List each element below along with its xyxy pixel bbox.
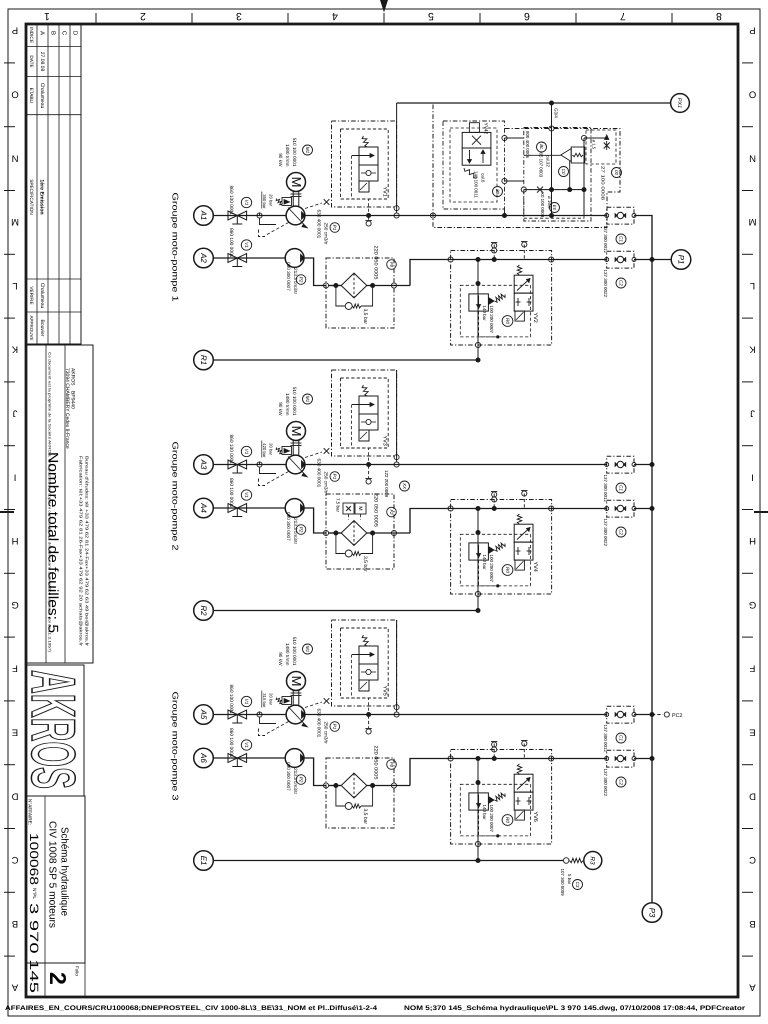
svg-text:00: 00 <box>614 170 619 176</box>
svg-text:1ère Emission: 1ère Emission <box>39 179 45 214</box>
svg-text:20 bar: 20 bar <box>269 194 274 206</box>
ref label V1 on A1 line <box>241 197 251 207</box>
filter inlet crossing <box>323 530 328 535</box>
svg-text:1: 1 <box>44 10 50 22</box>
junction bypass left <box>333 783 338 788</box>
wire YV5 to pressure line <box>396 620 398 712</box>
svg-text:R1: R1 <box>199 355 208 365</box>
wire YV1 box to PX1 line <box>396 103 398 121</box>
wire R2 return line <box>213 610 478 612</box>
wire pump P2 to filter group 1 <box>304 258 326 286</box>
wire pump P1 pressure line group 3 <box>305 714 607 716</box>
filter inlet crossing <box>323 283 328 288</box>
svg-text:2: 2 <box>45 972 71 985</box>
bypass check valve 3.5 bar <box>336 533 345 554</box>
centering mark right <box>754 511 768 513</box>
svg-text:C2: C2 <box>618 779 623 785</box>
coupling C1 quick-disconnect <box>607 207 634 224</box>
svg-text:137 300 0022: 137 300 0022 <box>603 519 608 547</box>
test point 2 above block <box>523 741 525 758</box>
svg-text:V1: V1 <box>244 449 249 455</box>
ref label 00 <box>612 168 622 178</box>
solenoid valve YV4 <box>517 514 521 524</box>
solenoid valve YV2 <box>517 265 521 275</box>
wire E1 extension <box>478 860 564 862</box>
filter outlet crossing <box>391 783 396 788</box>
wire C2 to port P1 <box>634 259 671 261</box>
svg-text:Bureau d'études: tél +33 479: Bureau d'études: tél +33 479 62 81 24-Fa… <box>85 456 90 647</box>
svg-text:860 100 0001: 860 100 0001 <box>228 186 234 216</box>
electric motor M1 group 2 <box>287 422 306 441</box>
svg-text:L: L <box>12 280 17 291</box>
spring of YV42 <box>464 168 477 178</box>
motor-pump shaft coupling <box>292 691 294 706</box>
gear pump P2 group 1 <box>285 249 304 268</box>
orifice X0 16mm <box>537 187 543 193</box>
svg-text:3: 3 <box>236 10 242 22</box>
hand shut-off valve V1 on A2 line <box>228 254 237 263</box>
svg-text:B: B <box>12 918 18 929</box>
cartridge valve (logic element) <box>561 149 571 162</box>
svg-text:X0 100 0009: X0 100 0009 <box>540 192 545 218</box>
svg-text:AKROS: AKROS <box>18 670 87 789</box>
svg-text:860 100 0001: 860 100 0001 <box>228 728 234 758</box>
motor-pump shaft coupling <box>292 441 294 456</box>
svg-text:INDICE: INDICE <box>29 27 34 43</box>
junction bypass left <box>333 531 338 536</box>
svg-text:8: 8 <box>716 10 722 22</box>
ref label P2 group 1 <box>296 275 306 285</box>
wire pump P1 pressure line group 1 <box>305 215 584 217</box>
wire E0 line <box>524 189 584 191</box>
company info box <box>26 345 93 663</box>
wire E1 return line <box>213 860 478 862</box>
svg-text:CIV 1008 SP 5 moteurs: CIV 1008 SP 5 moteurs <box>47 821 58 928</box>
wire YV1 to pressure line <box>396 121 398 213</box>
pilot line of YV3 <box>352 405 369 465</box>
svg-text:860 100 0001: 860 100 0001 <box>228 478 234 508</box>
svg-text:P3: P3 <box>647 908 656 918</box>
reducing/solenoid valve YV6 enclosure <box>451 750 552 845</box>
wire YV42 block to pressure line <box>504 209 506 216</box>
svg-text:I: I <box>751 471 754 482</box>
svg-text:137 300 0012: 137 300 0012 <box>603 725 608 753</box>
motor-pump shaft coupling <box>292 192 294 207</box>
ref label F0 group 1 <box>387 260 397 270</box>
svg-text:080 300 0007: 080 300 0007 <box>286 512 291 541</box>
ref label C2 <box>616 527 626 537</box>
ref label P1 group 2 <box>330 472 340 482</box>
svg-text:P1: P1 <box>332 225 337 231</box>
svg-text:N: N <box>11 152 18 163</box>
wire cartridge to orifice <box>584 137 607 139</box>
junction bypass right <box>370 783 375 788</box>
ref label M1 group 1 <box>303 145 313 155</box>
drain plug X of pump <box>305 203 322 209</box>
svg-text:V1: V1 <box>244 492 249 498</box>
svg-text:APPROUVE: APPROUVE <box>29 315 34 340</box>
svg-text:PC2: PC2 <box>672 713 683 719</box>
wire A4 port to pump <box>213 507 285 509</box>
svg-text:A6: A6 <box>199 752 208 763</box>
svg-text:A4: A4 <box>199 502 208 513</box>
port A1 <box>194 206 214 226</box>
svg-text:E0: E0 <box>552 205 557 211</box>
port A4 <box>194 498 214 518</box>
svg-text:213.3 cm3/tr: 213.3 cm3/tr <box>293 768 298 794</box>
svg-text:90 kW: 90 kW <box>278 402 283 416</box>
wire drain stub at suction node <box>260 717 277 723</box>
wire YV2 block drain to return <box>477 345 479 360</box>
svg-text:137 300 0012: 137 300 0012 <box>603 475 608 503</box>
coupling C2 quick-disconnect <box>607 750 634 767</box>
coupling C2 quick-disconnect <box>607 251 634 268</box>
coupling C2 quick-disconnect <box>607 500 634 517</box>
ref label XX <box>400 481 410 491</box>
wire C1 to collector g3 <box>634 714 652 716</box>
svg-text:M1: M1 <box>305 646 310 653</box>
hand shut-off valve V1 on A4 line <box>228 504 237 513</box>
svg-text:A3: A3 <box>199 459 208 470</box>
cartridge block enclosure <box>524 128 591 222</box>
wire filter outlet riser group 3 <box>410 759 607 786</box>
svg-text:2: 2 <box>140 10 146 22</box>
svg-text:C3: C3 <box>575 882 580 888</box>
svg-text:SPECIFICATION: SPECIFICATION <box>29 179 34 215</box>
svg-text:F: F <box>749 663 755 674</box>
svg-text:137 300 0022: 137 300 0022 <box>603 270 608 298</box>
inner dashed box of YV6 <box>460 784 530 836</box>
node check to R3 <box>563 858 569 864</box>
left edge zone ticks <box>4 62 15 64</box>
wire YV3 to pressure line <box>396 370 398 462</box>
ref label C1 <box>616 234 626 244</box>
pilot line of YV5 <box>352 655 369 715</box>
svg-text:D: D <box>72 31 79 36</box>
filter F0 group 2 <box>341 521 367 546</box>
svg-text:860 100 0001: 860 100 0001 <box>228 435 234 465</box>
solenoid valve YV42 body <box>469 123 479 133</box>
svg-text:420 bar: 420 bar <box>262 443 267 458</box>
svg-text:510 100 0001: 510 100 0001 <box>292 387 297 416</box>
solenoid pilot valve YV1 enclosure <box>332 121 397 207</box>
electric motor M1 group 1 <box>287 173 306 192</box>
junction bypass left <box>333 283 338 288</box>
svg-text:YV5: YV5 <box>382 686 388 696</box>
svg-text:P2: P2 <box>298 527 303 533</box>
svg-text:3,5 bar: 3,5 bar <box>362 309 368 325</box>
svg-text:K: K <box>11 344 18 355</box>
svg-text:1480 tr/mn: 1480 tr/mn <box>285 393 290 416</box>
filter enclosure group 2 <box>326 494 394 569</box>
svg-text:350 bar: 350 bar <box>262 194 267 209</box>
svg-text:140 bar: 140 bar <box>482 805 487 821</box>
svg-text:250 cm3/tr: 250 cm3/tr <box>324 722 329 745</box>
wire main collector to port P3 <box>651 260 653 903</box>
svg-text:V1: V1 <box>244 200 249 206</box>
svg-text:F0: F0 <box>389 262 394 268</box>
wire YV42 to cartridge block lower <box>505 180 524 182</box>
svg-text:cal.32: cal.32 <box>546 155 551 167</box>
port R1 <box>194 350 214 370</box>
svg-text:YV2: YV2 <box>532 313 538 323</box>
svg-text:M: M <box>289 676 304 687</box>
test point 1 above block <box>493 492 495 508</box>
wire drain stub at suction node <box>260 467 277 473</box>
filter outlet crossing <box>391 530 396 535</box>
svg-text:860 100 0001: 860 100 0001 <box>228 685 234 715</box>
filter enclosure group 1 <box>326 258 394 328</box>
svg-text:G: G <box>11 599 18 610</box>
svg-text:D: D <box>11 790 18 801</box>
solenoid valve YV6 <box>517 764 521 774</box>
crossing at manifold box edge <box>430 213 435 218</box>
wire vertical feed inside YV4 block <box>477 509 479 595</box>
svg-text:510 100 0001: 510 100 0001 <box>292 637 297 666</box>
svg-text:A: A <box>39 31 46 35</box>
svg-text:213.3 cm3/tr: 213.3 cm3/tr <box>293 268 298 294</box>
port P1 <box>671 250 691 270</box>
svg-text:P1: P1 <box>676 255 685 265</box>
port PX1 <box>671 94 690 113</box>
svg-text:122 200 0009: 122 200 0009 <box>384 470 389 498</box>
svg-text:M: M <box>357 506 363 510</box>
svg-text:90 kW: 90 kW <box>278 153 283 167</box>
junction PX1/cartridge <box>549 101 554 106</box>
svg-text:A: A <box>749 982 756 993</box>
svg-text:F0: F0 <box>389 762 394 768</box>
gear pump P2 group 2 <box>285 499 304 518</box>
svg-text:F2: F2 <box>389 509 394 515</box>
svg-text:R0: R0 <box>505 318 510 324</box>
svg-text:A: A <box>11 982 18 993</box>
svg-text:M1: M1 <box>305 396 310 403</box>
wire dashed pilot pump to drain bracket <box>267 223 289 235</box>
wire filter line group 1 <box>329 285 342 287</box>
svg-text:860 100 0001: 860 100 0001 <box>228 228 234 258</box>
svg-text:K: K <box>749 344 756 355</box>
ref label R0 of YV2 block <box>502 316 513 327</box>
wire filter line group 3 <box>329 785 342 787</box>
ref label V1 on A4 line <box>241 490 251 500</box>
wire A6 port to pump <box>213 757 285 759</box>
svg-text:YV1: YV1 <box>382 187 388 197</box>
svg-text:N°PL: N°PL <box>32 888 37 899</box>
svg-text:F: F <box>12 663 18 674</box>
svg-text:220 050 0005: 220 050 0005 <box>373 746 379 780</box>
svg-text:27 100 0008: 27 100 0008 <box>601 166 606 201</box>
wire filter line group 2 <box>329 532 342 534</box>
centering mark top <box>381 0 388 11</box>
crossing nodes on YV42 box edge <box>502 135 507 140</box>
wire pump P2 to filter group 3 <box>304 758 326 786</box>
wire dashed bracket (pilot drain) <box>259 230 266 237</box>
wire C1 to collector corner g1 <box>634 216 652 260</box>
port P3 <box>642 903 662 923</box>
E0 block dashed box <box>524 190 584 219</box>
svg-text:27.08.08: 27.08.08 <box>39 52 45 72</box>
test point below pressure line <box>368 217 370 221</box>
wire cartridge to E0 line <box>569 161 571 190</box>
revision table frame <box>26 24 81 344</box>
svg-text:5: 5 <box>428 10 434 22</box>
reducing/solenoid valve YV4 enclosure <box>451 500 552 595</box>
drain plug X of pump <box>305 702 322 708</box>
svg-text:C: C <box>11 854 18 865</box>
svg-text:C1: C1 <box>618 735 623 741</box>
solenoid pilot valve YV5 enclosure <box>332 620 397 706</box>
port E1 <box>194 851 214 871</box>
ref label V1 on A3 line <box>241 446 251 456</box>
solenoid valve YV42 enclosure <box>443 121 505 209</box>
svg-text:Folio: Folio <box>75 966 80 976</box>
svg-text:Chalumeau: Chalumeau <box>39 283 45 309</box>
svg-text:ETABLI: ETABLI <box>29 88 34 104</box>
svg-text:140 bar: 140 bar <box>482 306 487 322</box>
svg-text:90 kW: 90 kW <box>278 652 283 666</box>
solenoid pilot valve YV5 body <box>359 646 378 664</box>
svg-text:A1: A1 <box>199 210 208 221</box>
wire tap junctions on line for YV2 <box>476 257 481 262</box>
wire tap junctions on line for YV6 <box>476 756 481 761</box>
svg-text:M: M <box>289 426 304 437</box>
ref label P1 group 1 <box>330 223 340 233</box>
pressure reducing valve in YV2 block <box>469 294 489 311</box>
svg-text:Groupe moto-pompe 1: Groupe moto-pompe 1 <box>171 193 181 302</box>
relief valve on pump case <box>282 198 292 206</box>
svg-text:XX: XX <box>402 482 407 490</box>
main pump P1 group 2 (variable) <box>286 455 305 474</box>
svg-text:140 bar: 140 bar <box>482 555 487 571</box>
port A5 <box>194 705 214 725</box>
main pump P1 group 3 (variable) <box>286 705 305 724</box>
wire pump P1 pressure line group 2 <box>305 464 607 466</box>
test point 1 above block <box>493 742 495 758</box>
wire pump P2 to filter group 2 <box>304 508 326 533</box>
wire C2 to collector g2 <box>634 508 652 510</box>
svg-text:C1: C1 <box>618 236 623 242</box>
svg-text:C2: C2 <box>618 529 623 535</box>
ref label V1 on A5 line <box>241 696 251 706</box>
svg-text:NOM 5;370 145_Schéma hydrauliq: NOM 5;370 145_Schéma hydraulique\PL 3 97… <box>404 1005 746 1012</box>
svg-text:L: L <box>750 280 755 291</box>
wire R1 return line <box>213 359 478 361</box>
svg-text:Fabrication: tél:+33 479: Fabrication: tél:+33 479 62 81 26-Fax+33… <box>79 456 84 647</box>
svg-text:O: O <box>11 89 18 100</box>
restrictor to R3 <box>570 858 584 862</box>
wire A5 port to pump <box>213 714 286 716</box>
pressure reducing valve in YV6 block <box>469 793 489 810</box>
test point 1 above block <box>493 243 495 259</box>
top edge zone tick marks <box>95 13 97 23</box>
wire A1 port to pump <box>213 215 286 217</box>
svg-text:P: P <box>749 25 755 36</box>
svg-text:137 300 0012: 137 300 0012 <box>603 226 608 254</box>
svg-text:1480 tr/mn: 1480 tr/mn <box>285 643 290 666</box>
svg-text:630 400 0001: 630 400 0001 <box>317 459 322 488</box>
wire orifice drop to C1 feed <box>583 138 585 216</box>
crossing node on suction line <box>257 462 262 467</box>
ref label C1 <box>616 483 626 493</box>
wire tap junctions on line for YV4 <box>476 506 481 511</box>
svg-text:C2: C2 <box>618 280 623 286</box>
svg-text:O: O <box>749 89 756 100</box>
svg-text:30: 30 <box>495 189 500 195</box>
svg-text:M1: M1 <box>305 147 310 154</box>
port A3 <box>194 455 214 475</box>
svg-text:E1: E1 <box>199 856 208 866</box>
svg-text:220 050 0005: 220 050 0005 <box>373 493 379 527</box>
svg-text:J: J <box>750 408 755 419</box>
svg-text:315 bar: 315 bar <box>262 693 267 708</box>
svg-text:D: D <box>749 790 756 801</box>
wire PX1 line <box>397 102 671 104</box>
coupling C1 quick-disconnect <box>607 706 634 723</box>
svg-text:A2: A2 <box>199 252 208 263</box>
junction bypass right <box>370 283 375 288</box>
svg-text:100068: 100068 <box>27 833 41 885</box>
svg-text:20 bar: 20 bar <box>269 443 274 455</box>
svg-text:7,5 bar: 7,5 bar <box>336 498 341 513</box>
hand shut-off valve V1 on A1 line <box>228 211 237 220</box>
port A6 <box>194 748 214 768</box>
relief valve on pump case <box>282 447 292 455</box>
orifice 1.5mm (plugged) <box>604 143 610 149</box>
test point 2 above block <box>523 491 525 508</box>
svg-text:PX1: PX1 <box>676 98 682 108</box>
ref label V1 on A2 line <box>241 240 251 250</box>
svg-text:P1: P1 <box>332 474 337 480</box>
ref label V1 on A6 line <box>241 740 251 750</box>
svg-text:05 107 0003: 05 107 0003 <box>539 153 544 178</box>
wire C2 to collector g3 <box>634 758 652 760</box>
svg-text:630 400 0001: 630 400 0001 <box>317 210 322 239</box>
wire dashed pilot pump to drain bracket <box>267 472 289 484</box>
svg-text:P2: P2 <box>298 277 303 283</box>
svg-text:137 300 0022: 137 300 0022 <box>603 769 608 797</box>
svg-text:C: C <box>749 854 756 865</box>
ref label BL <box>537 142 547 152</box>
svg-text:6: 6 <box>524 10 530 22</box>
svg-text:M: M <box>11 216 19 227</box>
svg-text:1480 tr/mn: 1480 tr/mn <box>285 144 290 167</box>
svg-text:100 200 0007: 100 200 0007 <box>489 555 494 583</box>
wire filter outlet riser group 2 <box>410 509 607 534</box>
svg-text:cal.6: cal.6 <box>481 173 486 183</box>
ref label C1 <box>616 733 626 743</box>
reducing/solenoid valve YV2 enclosure <box>451 251 552 346</box>
svg-text:213.3 cm3/tr: 213.3 cm3/tr <box>293 518 298 544</box>
svg-text:800 400 0006: 800 400 0006 <box>525 131 530 159</box>
svg-text:20 bar: 20 bar <box>269 693 274 705</box>
svg-text:P2: P2 <box>298 777 303 783</box>
svg-text:Schéma hydraulique: Schéma hydraulique <box>59 827 70 916</box>
wire cartridge pilot to block edge <box>524 154 561 156</box>
svg-text:V1: V1 <box>244 242 249 248</box>
svg-text:R0: R0 <box>505 567 510 573</box>
wire drain stub at suction node <box>260 218 277 224</box>
svg-text:220 050 0005: 220 050 0005 <box>373 246 379 280</box>
svg-text:P: P <box>12 25 18 36</box>
svg-text:100 200 0007: 100 200 0007 <box>489 805 494 833</box>
svg-text:R3: R3 <box>589 856 596 865</box>
wire vertical feed inside YV6 block <box>477 759 479 845</box>
main pump P1 group 1 (variable) <box>286 206 305 225</box>
svg-text:3 970 145: 3 970 145 <box>27 903 41 994</box>
svg-text:7: 7 <box>620 10 626 22</box>
svg-text:R2: R2 <box>199 605 208 616</box>
pilot drain of reducing valve <box>479 810 498 836</box>
